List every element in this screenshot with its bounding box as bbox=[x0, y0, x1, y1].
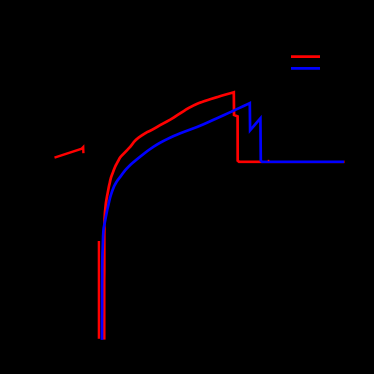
legend blue line bbox=[291, 67, 320, 70]
legend red line bbox=[291, 55, 320, 58]
red precursor segment (bottom-left) bbox=[55, 147, 84, 158]
red stick-slip vertical (left of main rise) bbox=[98, 241, 100, 339]
red dot poking above blue flat line bbox=[268, 160, 270, 161]
blue main curve bbox=[102, 103, 344, 340]
red main curve bbox=[104, 92, 344, 339]
